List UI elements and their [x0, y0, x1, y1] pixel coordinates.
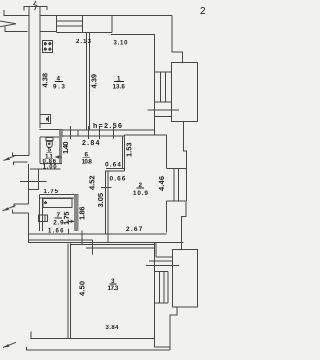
balcony B1: [171, 63, 197, 122]
wall room3 right inner: [153, 243, 155, 347]
break stub mid: [4, 153, 30, 166]
wall right-outer top: [172, 16, 182, 63]
svg-text:1.86: 1.86: [77, 207, 86, 221]
wall wc top: [40, 136, 59, 138]
svg-text:4.46: 4.46: [157, 176, 166, 191]
svg-text:10.9: 10.9: [133, 190, 148, 197]
room4 label: [53, 76, 65, 91]
svg-text:1.75: 1.75: [44, 189, 59, 195]
wall room2 bottom: [108, 233, 167, 235]
room2 label: [133, 182, 148, 197]
wall room3 bottom inner: [31, 332, 154, 339]
wall room3 top: [71, 245, 155, 248]
svg-text:4.50: 4.50: [78, 281, 87, 296]
wall left-inner: [39, 7, 41, 129]
svg-text:2.67: 2.67: [126, 226, 143, 233]
wall hall right: [106, 171, 109, 234]
svg-text:10.8: 10.8: [82, 159, 93, 166]
wall room1 right: [154, 34, 156, 135]
wall bottom outer: [27, 349, 171, 351]
break symbol bottom: [3, 342, 27, 350]
svg-text:3.05: 3.05: [96, 193, 105, 208]
wall top-inner room1: [111, 33, 155, 35]
svg-text:3.10: 3.10: [114, 41, 129, 47]
wall bottom step inner: [154, 346, 170, 348]
door sill room1: [148, 110, 180, 116]
svg-text:9.3: 9.3: [53, 84, 65, 91]
window W1 room1-balcony: [155, 72, 172, 102]
partition rooms 4|1: [86, 32, 89, 130]
wall left-outer: [28, 7, 31, 243]
window W2 room2-right: [166, 168, 186, 201]
door leaf room3: [91, 240, 93, 254]
room7 walls: [40, 195, 79, 232]
wall kitchen bottom: [40, 129, 63, 137]
break symbol top: [34, 1, 37, 10]
break stub lower: [3, 204, 29, 213]
svg-text:h=2.56: h=2.56: [93, 123, 122, 130]
sink kitchen: [40, 115, 51, 124]
arrow 1.75 room7: [67, 220, 74, 222]
svg-text:4.52: 4.52: [87, 176, 96, 191]
wall hall bottom: [29, 234, 157, 240]
tick hall right: [101, 186, 112, 188]
wall top-inner stub: [5, 27, 28, 32]
door sill room3: [146, 257, 179, 265]
balcony B2: [173, 250, 198, 307]
wall right-outer below W2: [182, 201, 186, 250]
washbasin room7: [39, 215, 48, 221]
svg-text:1.40: 1.40: [61, 142, 70, 155]
svg-text:1.66: 1.66: [48, 229, 64, 235]
ticks hall bottom: [69, 228, 108, 245]
wall wc bottom: [40, 163, 62, 165]
wall cap y192: [29, 189, 39, 191]
wall left lower: [28, 242, 184, 244]
svg-text:0.66: 0.66: [110, 176, 126, 183]
tick hall left: [20, 181, 47, 183]
arrow 1.40 wc: [56, 156, 62, 158]
svg-text:2.13: 2.13: [76, 39, 92, 45]
svg-text:4.38: 4.38: [40, 73, 49, 88]
svg-text:17.3: 17.3: [108, 285, 119, 292]
room7 right wall shaded: [74, 195, 79, 232]
wall top-inner room4: [40, 31, 57, 33]
svg-text:4.39: 4.39: [89, 74, 98, 89]
stove: [43, 41, 53, 53]
wall top-cap: [24, 7, 47, 11]
break symbol top-left: [0, 21, 16, 27]
wall right-outer below B1: [184, 122, 187, 169]
wall step 0.64: [105, 169, 124, 172]
wall step 1.53: [122, 135, 124, 171]
svg-text:2.84: 2.84: [82, 140, 100, 147]
svg-text:0.64: 0.64: [105, 162, 121, 169]
wall top-outer stub: [4, 10, 29, 16]
wardrobe room7: [43, 199, 72, 208]
room5 label: [45, 147, 53, 161]
wall room2 top: [125, 134, 167, 136]
window W3 room3-balcony: [154, 272, 168, 303]
wall room2 right inner: [165, 135, 167, 232]
window W4 top: [57, 16, 113, 33]
wall wc right shaded: [59, 129, 62, 163]
wall room3 left: [68, 244, 70, 339]
wall hall top: [62, 130, 155, 136]
svg-text:13.6: 13.6: [113, 84, 126, 91]
wall step right: [155, 243, 157, 257]
wall wc left: [39, 137, 41, 164]
room1 label: [113, 76, 126, 91]
room7 label: [53, 212, 64, 227]
svg-text:1.53: 1.53: [124, 143, 133, 158]
svg-text:1.00: 1.00: [43, 165, 58, 171]
wall below wc: [30, 169, 60, 190]
room3 label: [108, 278, 119, 292]
svg-text:2.9: 2.9: [53, 220, 64, 227]
room6 label: [82, 152, 93, 166]
svg-text:3.84: 3.84: [106, 325, 120, 331]
toilet: [46, 138, 53, 148]
svg-text:2: 2: [200, 6, 206, 17]
wall top-outer main: [40, 15, 172, 17]
wall right-outer below B2: [170, 307, 177, 350]
wall ticks hall top: [71, 126, 114, 139]
